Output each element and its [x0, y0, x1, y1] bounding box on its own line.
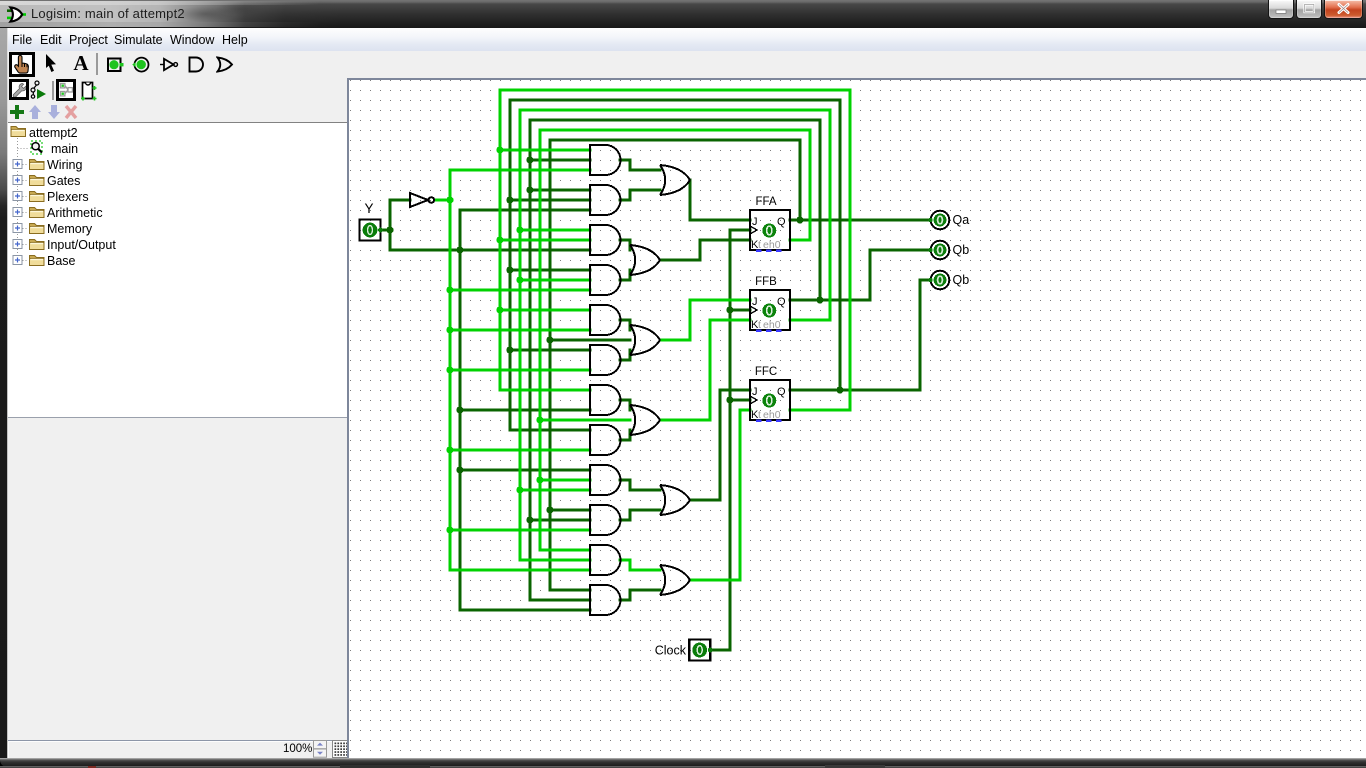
- svg-text:FFC: FFC: [755, 366, 777, 378]
- svg-text:Q: Q: [777, 386, 786, 398]
- svg-text:FFB: FFB: [755, 276, 777, 288]
- svg-text:t eh0: t eh0: [758, 239, 781, 251]
- svg-text:Q: Q: [777, 296, 786, 308]
- svg-text:FFA: FFA: [755, 196, 776, 208]
- svg-text:t eh0: t eh0: [758, 409, 781, 421]
- svg-text:Q: Q: [777, 216, 786, 228]
- svg-text:Qa: Qa: [953, 213, 970, 227]
- svg-text:Qb: Qb: [953, 243, 970, 257]
- svg-text:Y: Y: [364, 201, 373, 216]
- svg-text:Clock: Clock: [655, 644, 687, 658]
- svg-text:t eh0: t eh0: [758, 319, 781, 331]
- svg-text:Qb: Qb: [953, 273, 970, 287]
- svg-text:J: J: [752, 296, 758, 308]
- svg-text:J: J: [752, 386, 758, 398]
- svg-text:J: J: [752, 216, 758, 228]
